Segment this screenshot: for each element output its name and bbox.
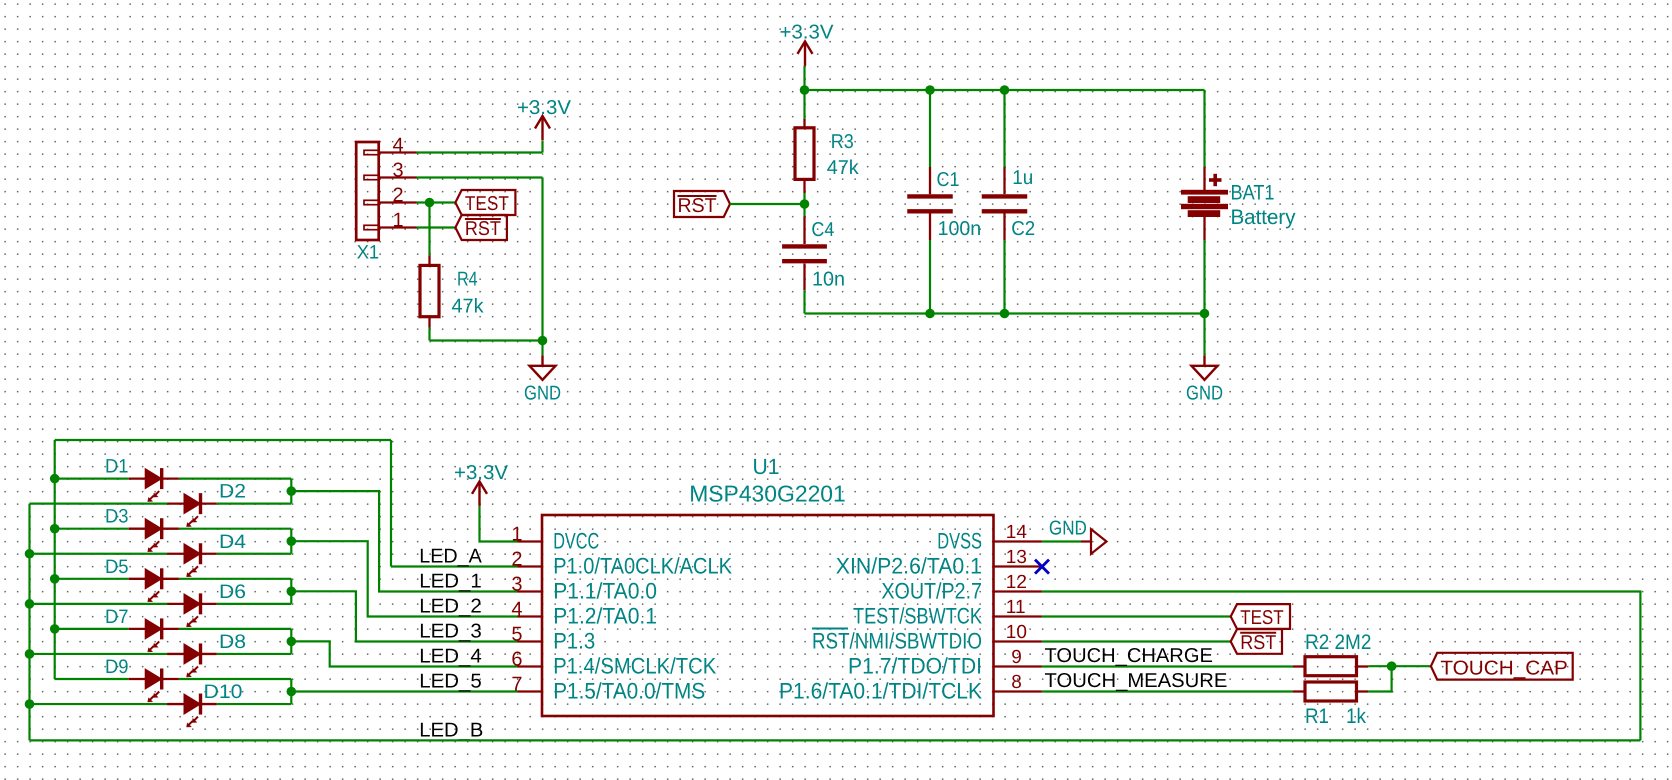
ground GND (battery area) <box>1192 355 1218 380</box>
capacitor C1 pin stubs <box>929 167 931 194</box>
global label RST (pin 10) <box>1231 629 1282 654</box>
wire R1 up to TOUCH_CAP node <box>1368 666 1391 691</box>
wire rail down to R3 <box>803 90 805 119</box>
wire bottom GND rail <box>805 312 1205 314</box>
wire D9 to pair column <box>179 678 291 680</box>
battery BAT1 <box>1203 167 1205 190</box>
wire RST label to node <box>730 203 805 205</box>
ground GND (U1 pin 14, pointing right) <box>1081 529 1107 554</box>
wire LED_A vertical to pin2 row <box>390 440 392 567</box>
svg-text:D2: D2 <box>219 481 246 503</box>
wire U1 pin11 to TEST label <box>1042 615 1231 617</box>
power +3.3V (X1 area) <box>535 116 550 141</box>
diode D5 pin stubs <box>129 578 146 580</box>
svg-text:8: 8 <box>1011 672 1022 693</box>
wire node down to C4 <box>803 204 805 216</box>
svg-text:3: 3 <box>392 160 403 182</box>
U1 pin 6 (P1.4/SMCLK/TCK) <box>518 665 543 667</box>
svg-text:P1.7/TDO/TDI: P1.7/TDO/TDI <box>848 654 982 679</box>
wire bus B to D4 <box>30 553 168 555</box>
overline over RST in pin 10 name <box>812 628 848 630</box>
LED D3 <box>145 518 162 552</box>
junction pair D9/D10 output <box>287 687 297 697</box>
svg-text:C2: C2 <box>1011 218 1035 240</box>
resistor R2 <box>1305 657 1357 676</box>
wire X1 pin3 right <box>417 176 543 178</box>
U1 pin 7 (P1.5/TA0.0/TMS) <box>518 690 543 692</box>
svg-text:LED_B: LED_B <box>419 719 483 741</box>
junction bottom rail at battery <box>1200 309 1210 319</box>
global label RST (X1) <box>455 215 507 240</box>
wire C2 top <box>1003 90 1005 167</box>
ground GND (X1 area) <box>530 355 556 380</box>
junction bottom rail at C1 <box>925 309 935 319</box>
junction bus B at D4 <box>25 549 35 559</box>
wire D7 to pair column <box>179 628 291 630</box>
wire pair D5/D6 vertical <box>290 579 292 604</box>
diode D6 pin stubs <box>167 603 184 605</box>
global label TEST (pin 11) <box>1231 604 1290 629</box>
wire D10 to pair column <box>217 703 291 705</box>
svg-text:1k: 1k <box>1346 705 1366 728</box>
svg-text:LED_2: LED_2 <box>419 596 482 618</box>
svg-text:D8: D8 <box>219 631 246 653</box>
junction bus B at D8 <box>25 649 35 659</box>
svg-text:100n: 100n <box>938 218 982 240</box>
LED D4 <box>184 543 201 577</box>
svg-text:10n: 10n <box>812 269 845 291</box>
junction bus A at D5 <box>50 574 60 584</box>
svg-text:+3.3V: +3.3V <box>517 97 572 119</box>
U1 pin 9 (P1.7/TDO/TDI) <box>994 665 1042 667</box>
wire net LED_4 to pin 6 <box>291 641 517 666</box>
svg-text:TOUCH_CHARGE: TOUCH_CHARGE <box>1045 645 1213 667</box>
svg-text:R2 2M2: R2 2M2 <box>1305 631 1371 654</box>
svg-text:R4: R4 <box>457 269 478 291</box>
svg-text:+3.3V: +3.3V <box>780 22 835 44</box>
wire D2 to pair column <box>217 503 291 505</box>
svg-text:TEST/SBWTCK: TEST/SBWTCK <box>853 604 982 629</box>
svg-text:P1.3: P1.3 <box>553 629 595 654</box>
power +3.3V (U1) <box>472 481 487 506</box>
wire bus B to D6 <box>30 603 168 605</box>
U1 pin 8 (P1.6/TA0.1/TDI/TCLK) <box>994 690 1042 692</box>
diode D8 pin stubs <box>167 653 184 655</box>
junction top rail at R3 <box>800 85 810 95</box>
U1 pin 3 (P1.1/TA0.0) <box>518 590 543 592</box>
svg-text:TOUCH_MEASURE: TOUCH_MEASURE <box>1045 670 1228 692</box>
LED D7 <box>145 618 162 652</box>
diode D7 pin stubs <box>129 628 146 630</box>
wire U1 pin10 to RST label <box>1042 640 1231 642</box>
wire C2 bottom <box>1003 240 1005 314</box>
diode D3 pin stubs <box>129 528 146 530</box>
resistor R3 <box>795 128 814 180</box>
resistor R2 pin stubs <box>1293 665 1305 667</box>
svg-text:R1: R1 <box>1305 705 1329 728</box>
wire X1 pin2 to TEST label <box>417 201 456 203</box>
svg-text:14: 14 <box>1006 522 1028 543</box>
wire U1 pin12 to LED_B net <box>1042 592 1641 741</box>
battery plus sign <box>1209 174 1222 186</box>
wire R3 bottom to RST node <box>803 193 805 204</box>
wire <box>30 739 1641 741</box>
svg-text:47k: 47k <box>452 296 485 318</box>
resistor R1 pin stubs <box>1293 690 1305 692</box>
svg-text:GND: GND <box>1049 518 1087 540</box>
wire junction down to R4 <box>428 203 430 256</box>
resistor R3 pin stubs <box>803 119 805 128</box>
wire C4 to bottom rail <box>803 290 805 313</box>
wire D3 to pair column <box>179 528 291 530</box>
IC U1 body <box>542 515 994 716</box>
svg-text:LED_4: LED_4 <box>419 646 482 668</box>
wire bus B to D2 <box>30 503 168 505</box>
svg-text:LED_1: LED_1 <box>419 571 482 593</box>
global label TOUCH_CAP <box>1431 653 1573 680</box>
global label TEST (X1) <box>455 190 515 215</box>
global label RST (R3 area) <box>674 191 730 217</box>
svg-text:47k: 47k <box>827 157 860 179</box>
capacitor C2 <box>982 196 1028 211</box>
wire net LED_5 to pin 7 <box>291 690 517 692</box>
U1 pin 12 (XOUT/P2.7) <box>994 590 1042 592</box>
wire bus A to D9 <box>55 678 129 680</box>
wire U1 pin14 to GND <box>1042 540 1081 542</box>
svg-text:1: 1 <box>392 210 403 232</box>
wire bus A to D1 <box>55 478 129 480</box>
wire top +3.3V rail <box>805 89 1205 91</box>
svg-text:2: 2 <box>511 548 522 570</box>
svg-text:MSP430G2201: MSP430G2201 <box>689 481 846 507</box>
wire bus B to D8 <box>30 653 168 655</box>
junction GND node (X1 area) <box>538 336 548 346</box>
diode D4 pin stubs <box>167 553 184 555</box>
LED D2 <box>184 493 201 527</box>
svg-text:D6: D6 <box>219 581 246 603</box>
junction bus A at D3 <box>50 524 60 534</box>
svg-text:2: 2 <box>392 185 403 207</box>
wire LED bus A vertical <box>54 440 56 679</box>
wire pair D1/D2 vertical <box>290 479 292 504</box>
wire U1 pin9 to R2 <box>1042 665 1293 667</box>
svg-text:10: 10 <box>1006 622 1027 643</box>
U1 pin 2 (P1.0/TA0CLK/ACLK) <box>518 565 543 567</box>
wire battery to bottom rail <box>1203 240 1205 314</box>
capacitor C2 pin stubs <box>1003 167 1005 194</box>
svg-text:P1.0/TA0CLK/ACLK: P1.0/TA0CLK/ACLK <box>553 554 732 579</box>
wire bus B to D10 <box>30 703 168 705</box>
wire +3.3V to top rail <box>803 66 805 90</box>
wire X1 pin4 to +3.3V <box>417 151 543 153</box>
junction RST node <box>800 199 810 209</box>
diode D9 pin stubs <box>129 678 146 680</box>
junction bus B at D6 <box>25 599 35 609</box>
capacitor C4 pin stubs <box>803 216 805 244</box>
U1 pin 1 (DVCC) <box>518 540 543 542</box>
LED D1 <box>145 468 162 502</box>
wire vertical pin3 to GND rail <box>541 178 543 341</box>
wire C1 bottom <box>929 240 931 314</box>
svg-text:P1.2/TA0.1: P1.2/TA0.1 <box>553 604 657 629</box>
svg-text:9: 9 <box>1011 647 1022 668</box>
svg-text:RST/NMI/SBWTDIO: RST/NMI/SBWTDIO <box>812 629 982 654</box>
wire LED bus B vertical <box>28 504 30 741</box>
svg-text:LED_5: LED_5 <box>419 671 482 693</box>
wire LED_A top rail <box>55 439 391 441</box>
svg-text:4: 4 <box>392 135 403 157</box>
LED D8 <box>184 643 201 677</box>
wire net LED_2 to pin 4 <box>291 541 517 616</box>
svg-text:13: 13 <box>1006 547 1027 568</box>
junction top rail at C2 <box>1000 85 1010 95</box>
wire C1 top <box>929 90 931 167</box>
junction TOUCH_CAP node <box>1387 661 1397 671</box>
svg-text:D3: D3 <box>105 506 129 528</box>
wire +3.3V stub to pin4 wire <box>541 141 543 153</box>
LED D5 <box>145 568 162 602</box>
resistor R4 pin stubs <box>428 255 430 265</box>
svg-text:11: 11 <box>1006 597 1026 618</box>
svg-text:3: 3 <box>511 573 522 595</box>
svg-text:+3.3V: +3.3V <box>454 462 509 484</box>
wire bus A to D7 <box>55 628 129 630</box>
svg-text:6: 6 <box>511 648 522 670</box>
junction bus A at D7 <box>50 624 60 634</box>
svg-text:5: 5 <box>511 623 522 645</box>
svg-text:D5: D5 <box>105 556 129 578</box>
svg-text:D9: D9 <box>105 656 129 678</box>
svg-text:4: 4 <box>511 598 522 620</box>
wire net LED_1 to pin 3 <box>291 491 517 591</box>
svg-text:P1.6/TA0.1/TDI/TCLK: P1.6/TA0.1/TDI/TCLK <box>779 679 982 704</box>
svg-text:DVSS: DVSS <box>937 529 982 554</box>
U1 pin 14 (DVSS) <box>994 540 1042 542</box>
svg-text:TEST: TEST <box>1240 607 1284 629</box>
wire +3.3V to U1 pin1 <box>480 506 518 542</box>
no-connect X on pin 13 <box>1035 560 1049 574</box>
wire down to GND symbol <box>541 341 543 356</box>
wire pair D3/D4 vertical <box>290 529 292 554</box>
junction pair D5/D6 output <box>287 587 297 597</box>
wire D6 to pair column <box>217 603 291 605</box>
svg-text:BAT1: BAT1 <box>1231 182 1275 205</box>
svg-text:C4: C4 <box>811 219 834 241</box>
svg-text:RST: RST <box>1240 632 1276 654</box>
power +3.3V (top rail) <box>798 41 813 66</box>
junction bottom rail at C2 <box>1000 309 1010 319</box>
svg-text:P1.4/SMCLK/TCK: P1.4/SMCLK/TCK <box>553 654 716 679</box>
svg-text:12: 12 <box>1006 572 1027 593</box>
wire bus A to D3 <box>55 528 129 530</box>
svg-text:Battery: Battery <box>1231 206 1296 229</box>
U1 pin 4 (P1.2/TA0.1) <box>518 615 543 617</box>
capacitor C4 <box>782 246 827 261</box>
U1 pin 13 (XIN/P2.6/TA0.1) <box>994 565 1042 567</box>
LED D9 <box>145 669 162 703</box>
connector X1 <box>356 142 379 240</box>
junction pair D3/D4 output <box>287 536 297 546</box>
wire bus A to D5 <box>55 578 129 580</box>
junction bus A at D1 <box>50 474 60 484</box>
svg-text:XOUT/P2.7: XOUT/P2.7 <box>881 579 982 604</box>
svg-text:C1: C1 <box>937 169 960 191</box>
LED D6 <box>184 593 201 627</box>
svg-text:GND: GND <box>524 383 561 405</box>
svg-text:7: 7 <box>511 673 522 695</box>
wire pair D7/D8 vertical <box>290 629 292 654</box>
wire D1 to pair column <box>179 478 291 480</box>
wire D8 to pair column <box>217 653 291 655</box>
wire D5 to pair column <box>179 578 291 580</box>
wire R4 to GND node <box>430 339 543 341</box>
svg-text:LED_A: LED_A <box>419 546 482 568</box>
wire pair D9/D10 vertical <box>290 679 292 704</box>
svg-text:LED_3: LED_3 <box>419 621 482 643</box>
diode D2 pin stubs <box>167 502 184 504</box>
svg-text:DVCC: DVCC <box>553 529 599 554</box>
wire U1 pin8 to R1 <box>1042 690 1293 692</box>
junction X1 pin2 node <box>425 198 435 208</box>
diode D1 pin stubs <box>129 477 146 479</box>
svg-text:D7: D7 <box>105 606 129 628</box>
junction pair D1/D2 output <box>287 486 297 496</box>
U1 pin 10 (RST/NMI/SBWTDIO) <box>994 640 1042 642</box>
junction top rail at C1 <box>925 85 935 95</box>
wire D4 to pair column <box>217 553 291 555</box>
wire R4 bottom <box>428 328 430 341</box>
svg-text:R3: R3 <box>831 131 854 153</box>
wire net LED_3 to pin 5 <box>291 591 517 641</box>
U1 pin 5 (P1.3) <box>518 640 543 642</box>
svg-text:X1: X1 <box>357 242 379 264</box>
svg-text:1: 1 <box>511 523 522 545</box>
wire R2 to TOUCH_CAP label <box>1368 665 1431 667</box>
svg-text:D4: D4 <box>219 531 246 553</box>
svg-text:RST: RST <box>678 195 717 217</box>
diode D10 pin stubs <box>167 703 184 705</box>
capacitor C1 <box>907 196 953 211</box>
svg-text:RST: RST <box>465 218 501 240</box>
resistor R4 <box>420 265 439 316</box>
svg-text:TOUCH_CAP: TOUCH_CAP <box>1440 658 1568 680</box>
wire X1 pin1 to RST label <box>417 226 456 228</box>
wire net LED_A to pin 2 <box>391 565 518 567</box>
resistor R1 <box>1305 682 1357 701</box>
LED D10 <box>184 694 201 728</box>
wire rail down to battery <box>1203 90 1205 167</box>
svg-text:U1: U1 <box>753 454 780 479</box>
svg-text:P1.5/TA0.0/TMS: P1.5/TA0.0/TMS <box>553 679 705 704</box>
U1 pin 11 (TEST/SBWTCK) <box>994 615 1042 617</box>
junction bus B at D10 <box>25 699 35 709</box>
junction pair D7/D8 output <box>287 637 297 647</box>
svg-text:GND: GND <box>1186 383 1223 405</box>
svg-text:XIN/P2.6/TA0.1: XIN/P2.6/TA0.1 <box>836 554 982 579</box>
svg-text:TEST: TEST <box>465 193 509 215</box>
wire down to GND symbol <box>1203 314 1205 356</box>
svg-text:D10: D10 <box>204 681 243 703</box>
svg-text:1u: 1u <box>1012 167 1033 189</box>
svg-text:D1: D1 <box>105 456 129 478</box>
svg-text:P1.1/TA0.0: P1.1/TA0.0 <box>553 579 657 604</box>
